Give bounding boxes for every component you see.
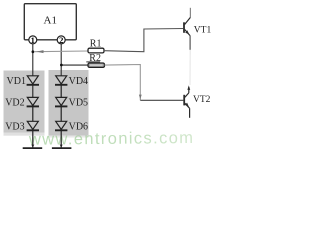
svg-text:www.entronics.com: www.entronics.com [28,129,193,149]
svg-text:VT1: VT1 [194,26,212,36]
svg-text:VD6: VD6 [69,122,88,133]
svg-text:VD4: VD4 [69,76,88,87]
svg-text:A1: A1 [44,14,57,26]
svg-text:2: 2 [59,35,63,45]
svg-text:VD3: VD3 [5,122,24,133]
svg-text:VD5: VD5 [69,98,88,109]
svg-text:VT2: VT2 [193,95,211,105]
svg-text:VD1: VD1 [7,76,26,87]
svg-text:1: 1 [31,35,35,45]
svg-text:VD2: VD2 [5,98,24,109]
